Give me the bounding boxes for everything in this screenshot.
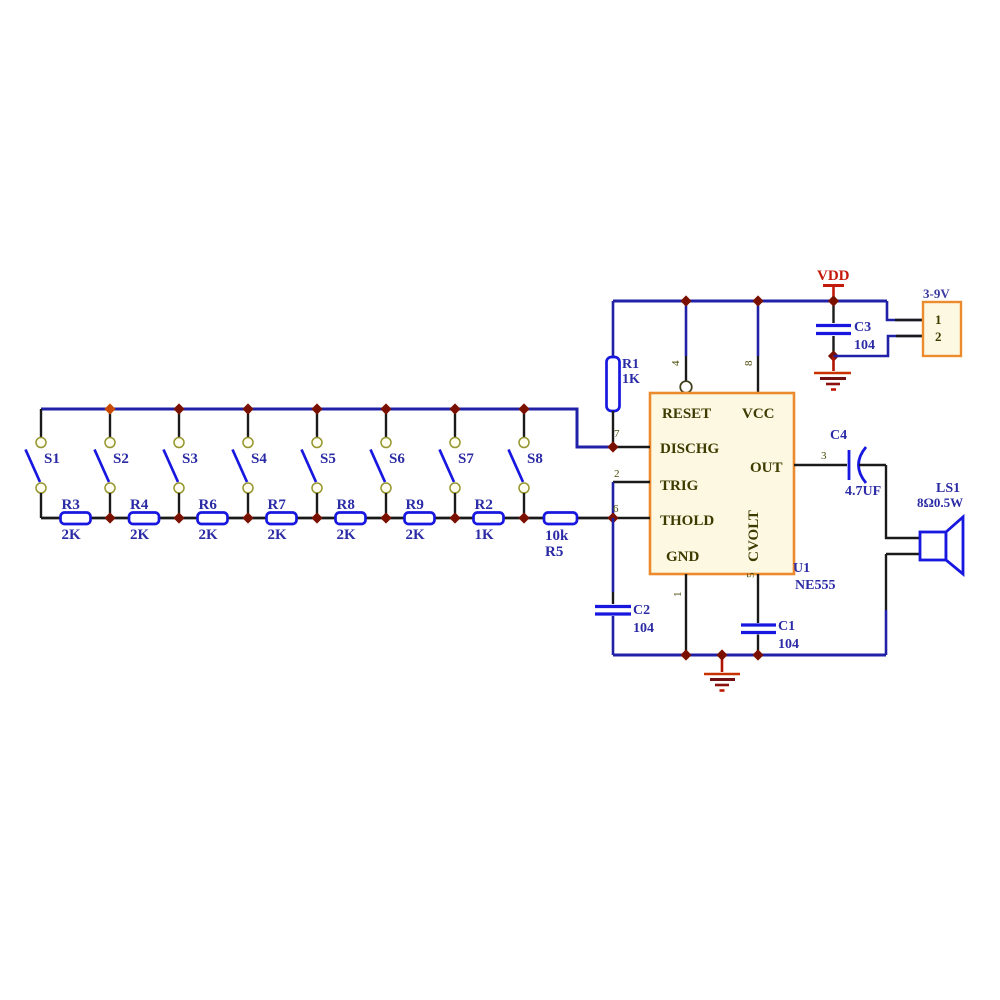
junction ground	[716, 649, 727, 660]
svg-text:R2: R2	[475, 497, 493, 513]
svg-text:R8: R8	[337, 497, 355, 513]
speaker LS1	[917, 481, 963, 574]
wire C4 to speaker top	[859, 465, 920, 538]
svg-text:OUT: OUT	[750, 460, 783, 476]
switch S3	[164, 409, 198, 518]
svg-text:R9: R9	[406, 497, 424, 513]
wire resistor chain	[41, 517, 613, 520]
svg-text:C3: C3	[854, 320, 871, 335]
svg-text:2K: 2K	[130, 527, 150, 543]
svg-text:CVOLT: CVOLT	[746, 510, 762, 562]
svg-text:2K: 2K	[406, 527, 426, 543]
ground main	[704, 655, 740, 691]
junction THOLD	[607, 512, 618, 523]
junction C3 bottom	[828, 350, 839, 361]
switch S2	[95, 409, 129, 518]
svg-text:C2: C2	[633, 603, 650, 618]
resistor R3 2K	[61, 497, 91, 543]
resistor R9 2K	[405, 497, 435, 543]
power VDD	[817, 268, 850, 301]
ground under C3	[814, 356, 851, 390]
junction DISCHG	[607, 441, 618, 452]
junction top bus at S3	[173, 403, 184, 414]
wire C3 to connector pin 2	[834, 336, 924, 356]
svg-text:2K: 2K	[62, 527, 82, 543]
svg-text:2K: 2K	[337, 527, 357, 543]
svg-text:2K: 2K	[268, 527, 288, 543]
svg-text:LS1: LS1	[936, 481, 960, 496]
junction top bus at S4	[242, 403, 253, 414]
svg-text:C1: C1	[778, 619, 795, 634]
svg-text:R3: R3	[62, 497, 80, 513]
svg-text:THOLD: THOLD	[660, 513, 714, 529]
svg-text:R6: R6	[199, 497, 218, 513]
switch S7	[440, 409, 475, 518]
wire GND pin 1	[685, 574, 687, 655]
junction chain at S8	[518, 512, 529, 523]
svg-text:1K: 1K	[622, 372, 640, 387]
svg-text:VDD: VDD	[817, 268, 850, 284]
junction top bus at S8	[518, 403, 529, 414]
capacitor C1 104	[741, 619, 799, 652]
svg-text:2: 2	[614, 468, 620, 480]
wire speaker bottom to ground bus	[886, 554, 920, 655]
svg-text:5: 5	[745, 572, 757, 578]
svg-text:R7: R7	[268, 497, 287, 513]
resistor R2 1K	[474, 497, 504, 543]
wire CVOLT pin 5 to C1	[757, 574, 759, 623]
resistor R5 10k	[544, 513, 577, 561]
junction top bus VCC	[752, 295, 763, 306]
svg-text:S4: S4	[251, 451, 267, 467]
wire VCC pin 8 drop	[757, 301, 760, 393]
junction top bus at S6	[380, 403, 391, 414]
capacitor C3 104	[816, 320, 875, 353]
switch S1	[26, 409, 60, 518]
wire RESET pin 4 drop	[685, 301, 688, 382]
svg-text:S5: S5	[320, 451, 336, 467]
svg-text:104: 104	[854, 338, 875, 353]
switch S4	[233, 409, 268, 518]
junction top bus at S2	[104, 403, 115, 414]
switch S6	[371, 409, 406, 518]
svg-text:3: 3	[821, 450, 827, 462]
junction top bus at S7	[449, 403, 460, 414]
resistor R4 2K	[129, 497, 159, 543]
svg-text:8Ω0.5W: 8Ω0.5W	[917, 495, 963, 510]
svg-text:S6: S6	[389, 451, 405, 467]
junction VDD at C3	[828, 295, 839, 306]
svg-text:R1: R1	[622, 357, 639, 372]
svg-text:GND: GND	[666, 549, 700, 565]
junction top bus RESET	[680, 295, 691, 306]
wire bus to connector pin 1	[887, 301, 923, 320]
junction chain at S5	[311, 512, 322, 523]
wire THOLD pin 6	[613, 517, 650, 519]
wire C3 bottom stub	[832, 336, 834, 356]
svg-text:4.7UF: 4.7UF	[845, 484, 881, 499]
wire switch top bus	[41, 409, 613, 447]
svg-text:1: 1	[935, 312, 942, 327]
wire TRIG pin 2	[613, 482, 650, 518]
resistor R7 2K	[267, 497, 297, 543]
junction chain at S7	[449, 512, 460, 523]
junction GND pin	[680, 649, 691, 660]
svg-text:R4: R4	[130, 497, 149, 513]
svg-text:104: 104	[633, 621, 654, 636]
svg-text:8: 8	[743, 360, 755, 366]
resistor R6 2K	[198, 497, 228, 543]
wire C1 to bottom bus	[757, 635, 759, 656]
wire R1 bottom	[612, 411, 614, 447]
svg-text:4: 4	[670, 360, 682, 366]
junction chain at S3	[173, 512, 184, 523]
svg-text:104: 104	[778, 637, 799, 652]
junction chain at S2	[104, 512, 115, 523]
svg-text:TRIG: TRIG	[660, 478, 699, 494]
svg-text:U1: U1	[793, 561, 810, 576]
svg-text:S8: S8	[527, 451, 543, 467]
svg-text:7: 7	[614, 428, 620, 440]
IC U1 NE555 body	[650, 393, 794, 574]
svg-text:S7: S7	[458, 451, 474, 467]
wire OUT pin 3	[794, 464, 847, 466]
resistor R8 2K	[336, 497, 366, 543]
wire VDD top bus	[613, 300, 887, 303]
junction chain at S6	[380, 512, 391, 523]
wire THOLD to C2	[612, 518, 615, 604]
wire C3 top stub	[832, 301, 834, 323]
svg-text:S1: S1	[44, 451, 60, 467]
svg-text:S2: S2	[113, 451, 129, 467]
svg-text:C4: C4	[830, 428, 847, 443]
wire C2 to bottom bus	[612, 616, 615, 655]
junction top bus at S5	[311, 403, 322, 414]
wire DISCHG pin 7	[613, 446, 650, 448]
svg-text:S3: S3	[182, 451, 198, 467]
svg-text:R5: R5	[545, 544, 563, 560]
capacitor C4 4.7UF	[830, 428, 881, 499]
svg-text:10k: 10k	[545, 528, 569, 544]
switch S8	[509, 409, 543, 518]
svg-text:2: 2	[935, 329, 942, 344]
svg-text:2K: 2K	[199, 527, 219, 543]
svg-text:RESET: RESET	[662, 406, 711, 422]
svg-text:NE555: NE555	[795, 578, 835, 593]
junction chain at S4	[242, 512, 253, 523]
connector J1 3-9V	[923, 286, 961, 356]
RESET active-low bubble	[680, 381, 692, 393]
wire R1 top	[612, 301, 615, 357]
junction C1	[752, 649, 763, 660]
svg-text:VCC: VCC	[742, 406, 775, 422]
svg-text:3-9V: 3-9V	[923, 286, 950, 301]
svg-text:1K: 1K	[475, 527, 495, 543]
svg-text:DISCHG: DISCHG	[660, 441, 720, 457]
svg-text:6: 6	[613, 503, 619, 515]
switch S5	[302, 409, 336, 518]
capacitor C2 104	[595, 603, 654, 636]
wire bottom ground bus	[613, 654, 886, 657]
svg-text:1: 1	[672, 592, 684, 598]
resistor R1 1K	[607, 357, 641, 411]
